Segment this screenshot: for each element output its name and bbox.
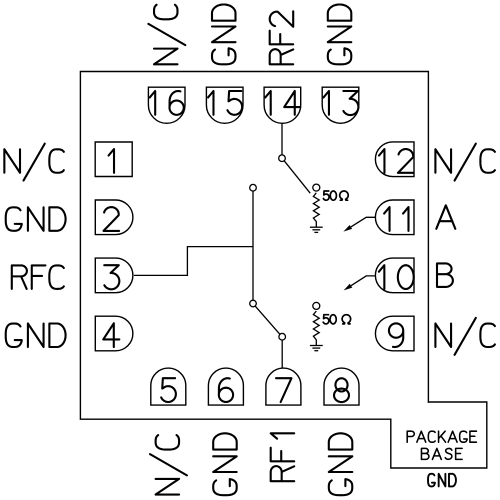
text PACKAGE BASE [407, 431, 476, 459]
pin 7 pad [266, 368, 301, 405]
pin 4 pad [95, 316, 133, 351]
pin 11 pad [375, 200, 414, 235]
pin 5 pad [151, 368, 186, 405]
label GND (pin 4) [6, 324, 66, 348]
label GND (pin 2) [6, 207, 66, 231]
pin 9 pad [375, 316, 414, 351]
package outline [80, 72, 428, 420]
ground lower [310, 346, 323, 351]
label GND (pin 13) [328, 4, 352, 64]
contact circle RF1 [279, 333, 286, 340]
label N/C (pin 1) [4, 144, 64, 181]
pin 15 pad [206, 87, 243, 123]
wire RF2 lead from pin 14 [281, 123, 283, 155]
label N/C (pin 16) [148, 5, 185, 65]
pin 6 pad [208, 368, 243, 405]
label GND (pin 6) [213, 433, 237, 495]
pin 12 pad [375, 142, 414, 177]
pin 13 pad [322, 87, 359, 123]
terminal circle 50ohm upper [313, 184, 320, 191]
contact circle pole bottom [250, 300, 257, 307]
switch arm RF1 (closed, pole to RF1) [255, 306, 280, 334]
pin 3 pad [95, 258, 133, 293]
pin 14 pad [264, 87, 301, 123]
contact circle RF2 [279, 155, 286, 162]
wire pole line [252, 191, 254, 300]
control arrow B (pin 10) [351, 276, 375, 286]
wire RFC trace from pin 3 [134, 247, 253, 276]
control arrow A (pin 11) [351, 217, 376, 227]
ground upper [310, 227, 323, 232]
terminal circle 50ohm lower [313, 302, 320, 309]
pin 10 pad [375, 258, 414, 293]
label RFC (pin 3) [12, 265, 64, 289]
pin 1 pad [95, 142, 132, 177]
label 50ohm upper [323, 191, 348, 200]
label GND (pin 15) [212, 4, 236, 64]
label GND (package base) [428, 474, 456, 487]
pin 8 pad [324, 368, 359, 405]
label B (pin 10) [437, 263, 453, 287]
pin 16 pad [148, 87, 185, 123]
label RF1 (pin 7) [271, 433, 295, 481]
label N/C (pin 5) [150, 435, 187, 495]
label N/C (pin 12) [435, 144, 495, 181]
switch arm RF2 (open, to termination) [284, 161, 310, 193]
pin 2 pad [95, 200, 133, 235]
label A (pin 11) [436, 205, 455, 229]
contact circle pole top [250, 184, 257, 191]
resistor 50ohm lower [313, 311, 319, 345]
package base box [391, 402, 487, 468]
label 50ohm lower [323, 315, 350, 324]
label RF2 (pin 14) [270, 11, 294, 64]
resistor 50ohm upper [313, 193, 319, 227]
label GND (pin 8) [329, 433, 353, 495]
wire RF1 lead to pin 7 [281, 340, 283, 368]
label N/C (pin 9) [435, 318, 495, 355]
